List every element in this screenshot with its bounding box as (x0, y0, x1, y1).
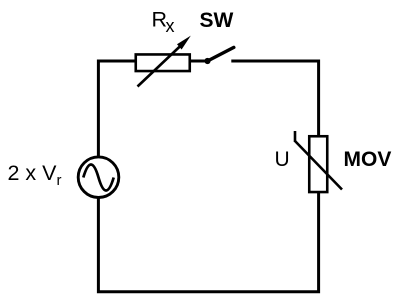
varistor MOV body (309, 136, 327, 192)
voltage source sine wave (83, 165, 113, 191)
svg-text:MOV: MOV (344, 148, 392, 171)
resistor Rx arrowhead (177, 36, 191, 50)
svg-text:SW: SW (200, 9, 234, 32)
svg-text:Rx: Rx (152, 8, 175, 36)
svg-text:2 x Vr: 2 x Vr (8, 161, 62, 189)
switch SW lever (208, 47, 234, 61)
voltage source circle (78, 157, 119, 198)
resistor Rx body (136, 54, 190, 71)
varistor MOV tick (294, 131, 297, 142)
wire: resistor right to switch pivot (190, 60, 207, 63)
resistor Rx variable arrow shaft (138, 44, 184, 87)
wire: source top to top-left corner to resistor left (98, 61, 136, 156)
switch SW pivot dot (204, 58, 210, 64)
svg-text:U: U (275, 148, 290, 171)
varistor MOV diagonal stroke (295, 141, 342, 190)
wire: switch right contact to top-right corner down to MOV top (231, 61, 318, 136)
wire: MOV bottom down, bottom wire, left up to source bottom (98, 193, 318, 292)
